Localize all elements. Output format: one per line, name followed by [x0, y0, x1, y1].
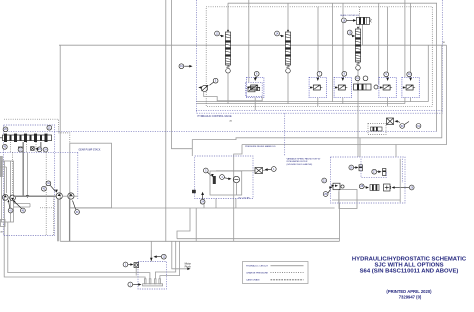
- gear pump stack box: [70, 143, 112, 208]
- compensator cluster: [198, 77, 262, 101]
- balloon 7: [317, 71, 322, 76]
- balloon 40: [21, 208, 26, 213]
- sjc valve pack dashed box: [4, 125, 55, 236]
- wire fan box down2: [215, 199, 217, 209]
- balloon 1f: [271, 167, 276, 172]
- wire spool V1 drop: [227, 74, 229, 104]
- wire: [332, 3, 334, 101]
- legend box: [243, 262, 309, 284]
- wire cross y236: [177, 238, 340, 240]
- wire dashed y152.8: [0, 151, 78, 153]
- balloon 12b: [161, 254, 166, 259]
- wire charge dotted left path: [4, 119, 70, 143]
- top horizontal spool: [340, 14, 371, 24]
- wire control valve solid top ring: [228, 3, 437, 131]
- wire long vertical x171.5: [172, 0, 193, 149]
- balloon 39: [75, 210, 80, 215]
- wire: [410, 3, 412, 77]
- wire case drain dashed right ring: [196, 0, 442, 113]
- svg-text:PRESSURE RELIEF MANIFOLD: PRESSURE RELIEF MANIFOLD: [245, 145, 276, 148]
- wire left box vertical x59: [59, 45, 61, 241]
- motor body box: [339, 190, 357, 209]
- balloon 24: [43, 147, 48, 152]
- housing details: [0, 156, 3, 177]
- motor section M4: [379, 77, 396, 97]
- wire spool V2 drop: [287, 74, 289, 104]
- spool valve V2: [275, 30, 291, 74]
- wire right ring x443.5: [192, 45, 441, 156]
- wire charge dotted ring: [206, 7, 432, 107]
- balloon 27: [372, 169, 377, 174]
- balloon 43: [42, 186, 47, 191]
- drain plug box: [1, 220, 6, 227]
- wire charge dotted x46.2: [45, 152, 47, 235]
- wire dashed vertical x78: [77, 152, 79, 199]
- balloon 4f: [220, 175, 225, 180]
- svg-text:(PRINTED APRIL 2020): (PRINTED APRIL 2020): [386, 289, 432, 294]
- balloon 9: [384, 72, 389, 77]
- wire charge dotted x53.7: [40, 197, 54, 236]
- wire: [287, 3, 289, 32]
- wire: [362, 24, 364, 45]
- inner solid box: [210, 171, 242, 195]
- wire fan box down: [203, 199, 205, 209]
- wire long vertical x165.8: [165, 0, 167, 242]
- balloon 28: [359, 184, 364, 189]
- svg-text:OIL COOLER: OIL COOLER: [238, 197, 250, 199]
- flush arrow: [187, 268, 190, 271]
- filter blob: [18, 147, 24, 152]
- balloon 23 w arrow: [37, 147, 42, 152]
- motor section M3: [334, 77, 351, 97]
- spool c: [370, 185, 379, 191]
- wire center rect step: [234, 145, 242, 242]
- wire: [359, 7, 361, 29]
- motor section M2: [309, 77, 326, 97]
- wire: [227, 3, 229, 32]
- wire center rect right edge: [339, 203, 341, 242]
- balloon 29 right: [409, 185, 414, 190]
- hydrostatic pump housing: [2, 161, 14, 222]
- balloon 2: [123, 262, 128, 267]
- wire between pumps: [14, 195, 58, 197]
- wire into manifold top: [150, 250, 152, 262]
- svg-text:BLADE COUPLER VLV: BLADE COUPLER VLV: [340, 14, 360, 17]
- svg-text:GEAR PUMP STACK: GEAR PUMP STACK: [79, 149, 101, 152]
- compensator circle: [201, 85, 207, 91]
- svg-text:CHARGE PRESSURE: CHARGE PRESSURE: [246, 271, 269, 274]
- balloon 10: [407, 72, 412, 77]
- wire case drain left low 2: [8, 222, 150, 279]
- motor section M1: [247, 77, 264, 97]
- small valve a: [359, 165, 362, 171]
- solenoid box: [31, 147, 35, 151]
- wire long dashed y133.5: [4, 130, 437, 132]
- svg-text:VARIABLE SPEED FAN MOTOR W/: VARIABLE SPEED FAN MOTOR W/: [287, 157, 321, 160]
- wire: [248, 0, 250, 82]
- wire: [387, 7, 389, 78]
- balloon 6: [254, 71, 259, 76]
- square block: [384, 184, 391, 191]
- svg-text:(S/N B4SL11001 & ABOVE): (S/N B4SL11001 & ABOVE): [287, 163, 313, 166]
- wire: [317, 7, 319, 78]
- spool valve V1: [215, 30, 231, 74]
- check valve at manifold inlet: [134, 263, 139, 268]
- control valve dashed box left edge: [195, 0, 197, 113]
- left filter cluster: [333, 183, 340, 190]
- internal dashed: [361, 159, 402, 183]
- gear pump circles: [56, 193, 62, 199]
- motor sections row: [247, 71, 420, 110]
- wires from sjc row down: [22, 142, 24, 196]
- wire bundle flush: [172, 241, 189, 268]
- svg-text:HYDRAULIC CONTROL VALVE: HYDRAULIC CONTROL VALVE: [198, 115, 232, 118]
- wire fan return drop: [195, 208, 197, 241]
- manifold comb: [143, 279, 163, 286]
- brake valve dotted box: [368, 124, 386, 135]
- small valve b: [383, 169, 386, 176]
- top right filter glyph: [255, 168, 263, 174]
- balloon 21: [47, 125, 52, 130]
- wire right ring x448: [242, 45, 447, 144]
- mid horizontal spool: [354, 76, 379, 90]
- wire: [342, 3, 344, 77]
- fan relief spool: [213, 176, 216, 184]
- spool valve V3: [347, 27, 360, 71]
- balloon 5f: [203, 168, 208, 173]
- internal wires: [216, 171, 268, 196]
- manifold dashed box: [138, 262, 167, 290]
- balloon 41: [8, 208, 13, 213]
- wire long horizontal y241.3: [60, 240, 339, 242]
- priority valve dashed box: [246, 82, 263, 96]
- wire inner right rect: [405, 0, 428, 104]
- motor section M5: [402, 77, 419, 97]
- wire bus y110.3 dashed: [196, 109, 442, 111]
- balloon 26: [349, 165, 354, 170]
- balloon 44: [46, 181, 51, 186]
- balloon 20: [3, 127, 8, 132]
- balloon 45 left: [2, 144, 7, 149]
- case drain cluster upper: [387, 118, 394, 125]
- balloon 1: [128, 282, 133, 287]
- svg-text:7329947 (0): 7329947 (0): [399, 294, 422, 299]
- svg-text:CASE DRAIN: CASE DRAIN: [246, 279, 260, 282]
- sjc spool row body: [0, 134, 52, 142]
- wire manifold feed: [150, 241, 152, 261]
- balloon 22: [18, 147, 23, 152]
- svg-text:INTEGRATED FILTER: INTEGRATED FILTER: [287, 160, 308, 163]
- fan drive dashed box: [195, 156, 253, 199]
- svg-text:HYDRAULIC CIRCUIT: HYDRAULIC CIRCUIT: [246, 265, 269, 268]
- fan motor circle: [233, 176, 239, 182]
- wire bus y103.5: [196, 101, 428, 103]
- wire: [378, 3, 380, 84]
- wire main top bus y44: [59, 44, 447, 46]
- wire spool V3 drop: [357, 70, 359, 157]
- wire step from y208: [177, 208, 190, 239]
- drive motor dashed box: [330, 157, 405, 203]
- wire long horizontal y208: [70, 207, 334, 209]
- wire case drain left low 1: [4, 222, 145, 279]
- balloon 19 top: [179, 64, 184, 69]
- wire fan box down3: [235, 199, 237, 209]
- wire dashed vertical x284.7: [284, 113, 286, 156]
- step wire from compensator: [204, 92, 263, 101]
- wires below motor row: [254, 98, 256, 111]
- wire bundle comb4: [160, 241, 180, 278]
- balloon 8: [342, 71, 347, 76]
- wire bundle comb3: [155, 241, 175, 278]
- pump circles: [2, 194, 8, 200]
- wire pump links: [14, 204, 31, 208]
- svg-text:S64 (S/N B4SC110011 AND ABOVE): S64 (S/N B4SC110011 AND ABOVE): [360, 268, 459, 274]
- balloon 24f below: [200, 199, 205, 204]
